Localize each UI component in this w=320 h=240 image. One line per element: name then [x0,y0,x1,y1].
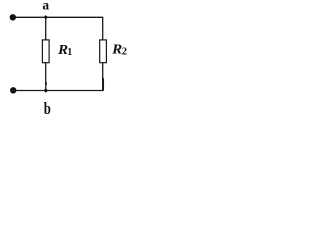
terminal dot top-left [10,14,16,20]
wire R2 bottom lead [102,63,104,91]
svg-text:2: 2 [122,47,127,58]
node a junction [44,15,48,19]
resistor R1 [42,40,49,63]
svg-text:1: 1 [67,47,72,58]
wire R1 bottom lead [45,63,47,91]
resistor R2 [100,40,107,63]
wire R1 top lead [45,17,47,40]
node b junction [44,88,48,92]
wire top-right corner down to R2 [102,17,104,40]
svg-text:b: b [44,101,51,118]
top wire (node a rail) [13,16,103,18]
wire R2 lead thick lower segment [102,78,104,90]
wire R1 lead small thick blob [45,82,47,85]
terminal dot bottom-left [10,87,16,93]
svg-text:a: a [42,0,49,13]
bottom wire (node b rail) [13,90,103,92]
